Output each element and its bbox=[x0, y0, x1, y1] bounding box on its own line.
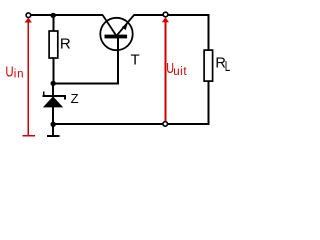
resistor R body bbox=[49, 31, 58, 58]
ground stub below bottom junction bbox=[52, 124, 54, 136]
svg-text:Z: Z bbox=[71, 91, 79, 106]
output terminal open circle top-right bbox=[163, 12, 168, 17]
zener right tick down bbox=[64, 95, 66, 99]
Uuit arrowhead bbox=[162, 17, 169, 22]
wire zener top lead bbox=[52, 84, 54, 97]
svg-text:U: U bbox=[5, 63, 13, 80]
transistor emitter lead bbox=[117, 15, 134, 35]
wire resistor R bottom to base junction bbox=[52, 58, 54, 85]
svg-text:L: L bbox=[225, 58, 231, 74]
wire RL bottom to bottom rail bbox=[208, 81, 210, 125]
transistor collector lead bbox=[103, 15, 116, 35]
Uin bottom bar bbox=[23, 135, 36, 137]
wire top rail left segment bbox=[31, 14, 103, 16]
node junction zener / ground / bottom rail bbox=[51, 122, 56, 127]
transistor T body circle bbox=[100, 18, 132, 50]
Uin arrow shaft (red) bbox=[27, 21, 29, 136]
zener anode triangle bbox=[43, 96, 63, 107]
node junction top rail / R bbox=[51, 13, 56, 18]
svg-text:R: R bbox=[60, 36, 71, 53]
transistor base lead vertical bbox=[117, 37, 119, 85]
transistor emitter arrowhead bbox=[122, 24, 128, 30]
Uin arrowhead bbox=[25, 18, 32, 23]
resistor RL body bbox=[204, 50, 213, 81]
wire zener anode to bottom junction bbox=[52, 107, 54, 126]
zener left tick up bbox=[43, 92, 45, 97]
svg-text:T: T bbox=[131, 52, 140, 69]
wire base junction horizontal to transistor base bbox=[53, 83, 119, 85]
node junction R / zener / base bbox=[51, 81, 56, 86]
svg-text:in: in bbox=[14, 69, 25, 81]
wire right vertical from top rail to RL bbox=[208, 14, 210, 51]
svg-text:uit: uit bbox=[173, 66, 187, 78]
wire top rail right segment bbox=[134, 14, 210, 16]
input terminal open circle top-left bbox=[26, 13, 31, 18]
output terminal open circle bottom bbox=[163, 122, 168, 127]
ground bar bbox=[47, 135, 59, 137]
wire junction to resistor R top bbox=[52, 15, 54, 32]
zener diode Z cathode bar bbox=[43, 95, 66, 97]
wire bottom rail bbox=[53, 123, 209, 125]
Uuit arrow shaft (red) bbox=[164, 21, 166, 121]
transistor base bar bbox=[105, 35, 128, 39]
